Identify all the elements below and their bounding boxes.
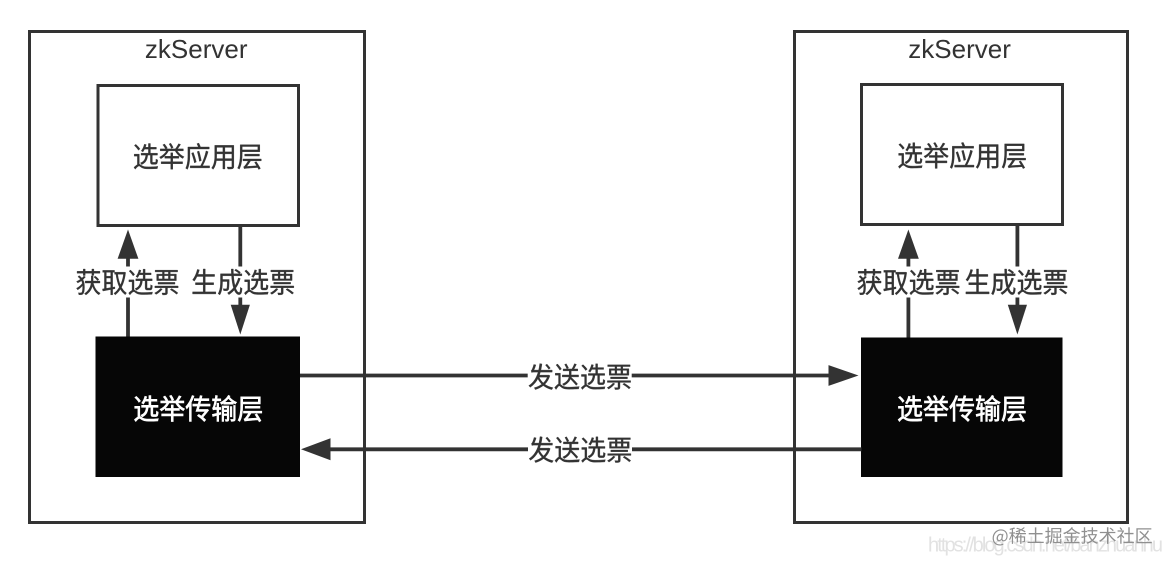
svg-text:zkServer: zkServer bbox=[908, 34, 1011, 64]
svg-text:zkServer: zkServer bbox=[145, 34, 248, 64]
